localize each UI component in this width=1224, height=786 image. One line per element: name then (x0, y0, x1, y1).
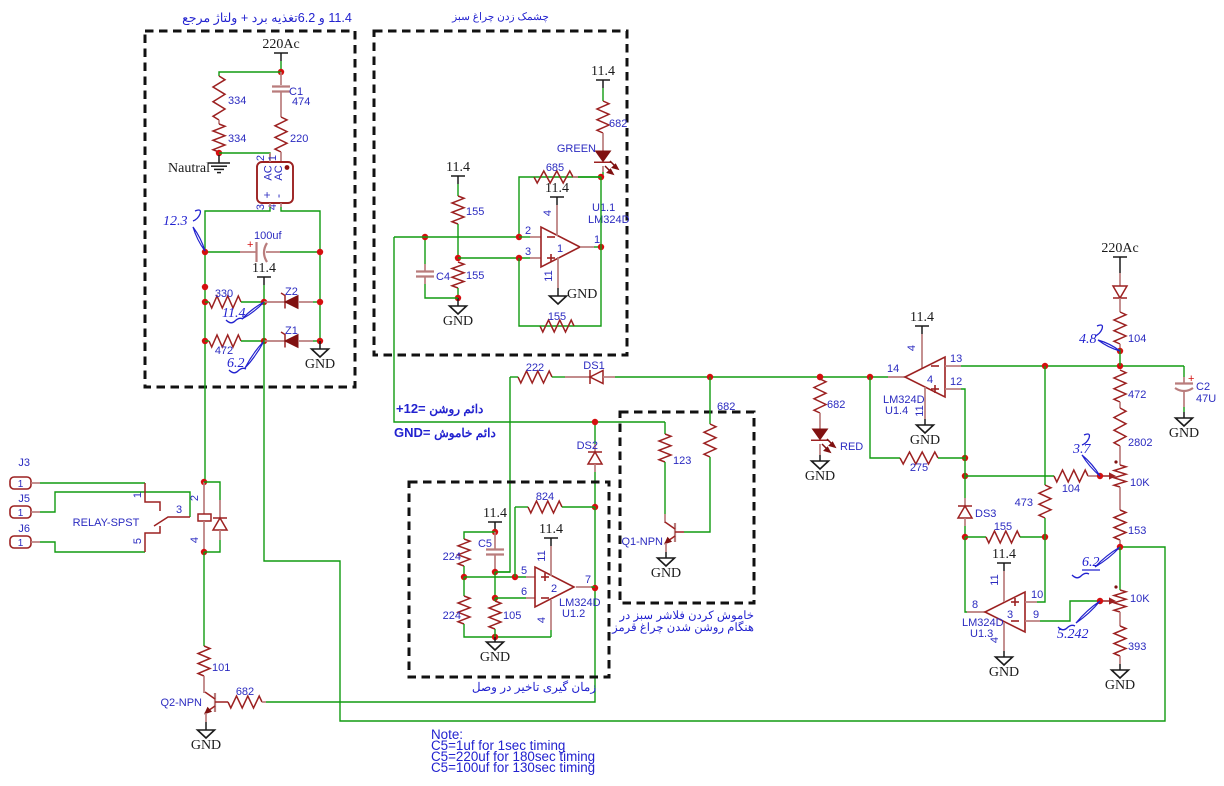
svg-text:1: 1 (557, 243, 563, 255)
J6 pin lead (31, 541, 40, 543)
resistor 472 (209, 335, 241, 347)
wire divider to gnd (457, 288, 459, 298)
wire 11.4 stub to 682 (602, 88, 604, 101)
junction 275 right (962, 455, 968, 461)
svg-text:6.2: 6.2 (1082, 555, 1100, 570)
pin 5 lead (526, 576, 535, 578)
pin 10 lead (1025, 601, 1037, 603)
wire flyback bottom (204, 540, 220, 552)
earth ground Nautral (208, 163, 230, 173)
J5 pin lead (31, 511, 40, 513)
svg-text:155: 155 (994, 521, 1012, 533)
wire 685 right (534, 176, 601, 178)
svg-text:U1.2: U1.2 (562, 608, 585, 620)
wire DS1 row to U1.4 pin14 (615, 376, 888, 378)
svg-text:155: 155 (466, 270, 484, 282)
net label +12 = always on (396, 401, 483, 416)
potentiometer 10K (upper) (1114, 465, 1126, 487)
svg-text:Z1: Z1 (285, 325, 298, 337)
svg-text:DS2: DS2 (577, 440, 598, 452)
Q2 emitter lead (205, 713, 207, 722)
wire (263, 302, 265, 341)
svg-text:105: 105 (503, 610, 521, 622)
svg-text:GND: GND (305, 357, 335, 372)
pin 7 output lead (576, 586, 591, 588)
svg-text:2: 2 (255, 155, 267, 161)
resistor 393 (1114, 626, 1126, 656)
wire 824 left branch (514, 507, 516, 577)
svg-text:3: 3 (525, 246, 531, 258)
wire bridge - rail (GND) (281, 207, 320, 341)
svg-text:C5: C5 (478, 538, 492, 550)
wire pin9 to pot wiper (1040, 601, 1097, 621)
junction coil top (201, 479, 207, 485)
dashed box: green LED flasher section (374, 31, 627, 355)
svg-text:224: 224 (443, 610, 461, 622)
svg-text:J5: J5 (18, 493, 30, 505)
wire DS2 to 824 node (594, 472, 596, 507)
svg-text:11.4: 11.4 (539, 522, 563, 537)
power terminal 11.4 (divider) (446, 160, 470, 184)
junction pot2 wiper (1097, 598, 1103, 604)
svg-text:11.4: 11.4 (252, 261, 276, 276)
pin 4 lead (U1.4) (921, 334, 923, 369)
zener Z2 (281, 293, 298, 309)
svg-text:10: 10 (1031, 589, 1043, 601)
resistor 123 (659, 434, 671, 462)
junction 472 left (202, 338, 208, 344)
svg-text:330: 330 (215, 288, 233, 300)
ground (U1.3 pin4) (989, 657, 1019, 680)
resistor 155 (divider lower) (452, 262, 464, 288)
Q1 collector lead (664, 514, 666, 523)
svg-text:GND: GND (651, 566, 681, 581)
svg-text:Z2: Z2 (285, 286, 298, 298)
svg-text:Q1-NPN: Q1-NPN (621, 536, 663, 548)
svg-text:11.4: 11.4 (992, 547, 1016, 562)
junction gnd rail / Z2 (317, 299, 323, 305)
wire 824 left stub (515, 506, 528, 508)
svg-text:682: 682 (827, 399, 845, 411)
wire 682 Q1 top (709, 377, 711, 424)
junction pin2 (516, 234, 522, 240)
resistor 155 (hysteresis) (986, 531, 1020, 543)
wire C2 top (1183, 366, 1185, 377)
ground (timer) (480, 642, 510, 665)
svg-text:4: 4 (927, 374, 933, 386)
pin 4 lead (U1.1) (556, 205, 558, 236)
net label GND = always off (394, 425, 496, 440)
ground (U1.1 pin11) (550, 287, 598, 304)
svg-text:100uf: 100uf (254, 230, 282, 242)
resistor 220 (275, 117, 287, 152)
svg-text:2: 2 (189, 495, 201, 501)
svg-text:472: 472 (1128, 389, 1146, 401)
wire C4 bottom (425, 284, 458, 298)
svg-text:7: 7 (585, 574, 591, 586)
wire 682 to Q1 base (684, 457, 710, 532)
resistor 275 (900, 452, 938, 464)
svg-text:GND: GND (805, 469, 835, 484)
svg-text:4: 4 (536, 617, 548, 623)
wire Z2 to gnd rail (313, 301, 320, 303)
svg-text:11.4: 11.4 (446, 160, 470, 175)
junction 12.3 rail (202, 284, 208, 290)
wire 222 left stub (510, 376, 518, 378)
wire pin12 down (961, 389, 965, 444)
pin 4 lead (U1.2) (550, 600, 552, 630)
svg-text:1: 1 (267, 155, 279, 161)
wire DS3 to 155 row (964, 526, 966, 537)
wire feedback rail right (540, 177, 601, 326)
bridge rectifier (257, 162, 293, 203)
ground (Q2) (191, 730, 221, 753)
junction 685/LED (598, 174, 604, 180)
power terminal 11.4 (U1.4 pin4) (910, 310, 934, 334)
wire 104 to main node (1119, 349, 1121, 366)
svg-text:474: 474 (292, 96, 310, 108)
junction gnd row / 105 (492, 634, 498, 640)
pin 4 lead (U1.3) (1003, 622, 1005, 651)
svg-text:824: 824 (536, 491, 554, 503)
svg-text:AC: AC (273, 165, 285, 180)
junction gnd rail / 100uf (317, 249, 323, 255)
svg-text:RELAY-SPST: RELAY-SPST (73, 517, 140, 529)
wire 275 right (938, 457, 965, 459)
relay pin1 fixed contact (145, 483, 160, 511)
svg-text:8: 8 (972, 599, 978, 611)
junction coil bottom (201, 549, 207, 555)
wire 6.2 node to pot2 (1119, 547, 1121, 590)
pin 1 output lead (580, 246, 594, 248)
ground (Q1) (651, 558, 681, 581)
wire DS2 top (594, 422, 596, 444)
wire (519, 236, 530, 238)
wire to 224 upper (464, 532, 495, 539)
wire U1.1 pin2 net to DS2/123 row (394, 237, 665, 422)
wire timer gnd row (464, 624, 551, 637)
junction C5 bottom (492, 569, 498, 575)
resistor 101 (198, 646, 210, 676)
svg-text:123: 123 (673, 455, 691, 467)
junction DS1 row / 682 Q1 (707, 374, 713, 380)
op-amp U1.2 LM324D (535, 567, 574, 607)
svg-text:J3: J3 (18, 457, 30, 469)
wire pin6 row (495, 597, 526, 599)
resistor 155 (feedback) (540, 320, 574, 332)
wire to bridge pin 2 (219, 153, 270, 158)
svg-text:GND: GND (910, 433, 940, 448)
junction 6.2 ref node (261, 338, 267, 344)
wire divider mid (457, 224, 459, 258)
svg-text:14: 14 (887, 363, 899, 375)
junction 330 left (202, 299, 208, 305)
svg-text:220Ac: 220Ac (262, 37, 299, 52)
svg-text:4: 4 (906, 345, 918, 351)
junction U1.2 output (592, 585, 598, 591)
note about C5 timing values (431, 729, 595, 773)
svg-text:220: 220 (290, 133, 308, 145)
pin 3 lead (530, 257, 541, 259)
relay pin5 fixed contact (145, 526, 160, 552)
ground (U1.4 pin11) (910, 425, 940, 448)
diode DS3 (958, 506, 972, 518)
svg-text:155: 155 (548, 311, 566, 323)
junction 12.3 rail / 100uf (202, 249, 208, 255)
power terminal 11.4 (U1.1 pin4) (545, 181, 569, 205)
svg-text:LM324D: LM324D (588, 214, 630, 226)
svg-text:-: - (271, 194, 285, 198)
svg-text:4: 4 (542, 210, 554, 216)
svg-text:5: 5 (132, 538, 144, 544)
wire (203, 552, 205, 646)
pin 1 marker dot (bridge) (285, 165, 290, 170)
junction U1.1 output (598, 244, 604, 250)
svg-text:10K: 10K (1130, 477, 1150, 489)
pin 13 lead (945, 365, 961, 367)
svg-text:220Ac: 220Ac (1101, 241, 1138, 256)
svg-text:1: 1 (18, 508, 24, 519)
op-amp U1.4 LM324D (905, 357, 945, 397)
dashed box: Q1 section (620, 412, 754, 603)
wire output to rail (594, 246, 601, 248)
resistor 824 (528, 501, 562, 513)
pin 6 lead (526, 597, 535, 599)
pin 2 lead (530, 236, 541, 238)
svg-text:3: 3 (176, 504, 182, 516)
power terminal 11.4 (682 green LED) (591, 64, 615, 88)
svg-text:334: 334 (228, 133, 246, 145)
svg-text:11.4: 11.4 (483, 506, 507, 521)
Q2 collector lead (203, 676, 205, 693)
svg-text:13: 13 (950, 353, 962, 365)
junction divider mid (455, 255, 461, 261)
junction main node 4.8 row (1117, 363, 1123, 369)
resistor 473 (1039, 485, 1051, 518)
wire 222 to DS1 (552, 376, 565, 378)
svg-text:393: 393 (1128, 641, 1146, 653)
svg-text:RED: RED (840, 441, 863, 453)
wire Z1 to gnd rail (313, 340, 320, 342)
pin 9 lead (1025, 620, 1040, 622)
wire 472 to node (241, 340, 264, 342)
svg-text:+: + (247, 239, 253, 251)
wire flyback top (204, 482, 220, 500)
svg-text:12: 12 (950, 376, 962, 388)
svg-text:682: 682 (609, 118, 627, 130)
svg-text:U1.4: U1.4 (885, 405, 908, 417)
svg-text:10K: 10K (1130, 593, 1150, 605)
power terminal 11.4 (U1.2 pin11) (539, 522, 563, 546)
Persian title: green light blinking (box2) (374, 11, 627, 23)
junction 11.4 ref node (261, 299, 267, 305)
wire pin2 row (394, 236, 519, 238)
svg-text:4: 4 (189, 537, 201, 543)
Persian title: board supply + reference voltage (box1) (167, 10, 367, 25)
junction 682 red top (817, 374, 823, 380)
svg-text:DS3: DS3 (975, 508, 996, 520)
svg-text:104: 104 (1062, 483, 1080, 495)
svg-text:11: 11 (989, 574, 1001, 585)
resistor 153 (1114, 510, 1126, 540)
svg-text:GND: GND (443, 314, 473, 329)
junction DS3 / 155 / U1.3 out (962, 534, 968, 540)
wire 685 left to pin2 (519, 177, 534, 237)
junction DS1 row / 275 (867, 374, 873, 380)
svg-text:11.4: 11.4 (910, 310, 934, 325)
resistor 682 (red LED) (814, 379, 826, 413)
svg-text:685: 685 (546, 162, 564, 174)
resistor 224 (lower) (458, 596, 470, 624)
wire 6.2 net long route (264, 341, 1165, 721)
wire C2 bottom (1183, 407, 1185, 412)
svg-text:1: 1 (18, 538, 24, 549)
wire 100uf left (205, 251, 240, 253)
svg-text:2802: 2802 (1128, 437, 1152, 449)
svg-text:GND: GND (567, 287, 597, 302)
resistor 104 (wiper) (1054, 470, 1088, 482)
svg-text:GND: GND (1105, 678, 1135, 693)
wire 685 to LED node (578, 176, 601, 178)
relay blade to pin3 (154, 517, 190, 526)
wire J5 to relay pin3 (40, 492, 190, 517)
svg-text:1: 1 (18, 479, 24, 490)
transistor Q2-NPN (204, 692, 215, 715)
LED RED (811, 429, 835, 452)
capacitor C1 474 (280, 72, 282, 85)
svg-text:3: 3 (255, 204, 267, 210)
wire pin5 row (464, 576, 526, 578)
wire U1.3 output branch (965, 537, 967, 612)
svg-text:155: 155 (466, 206, 484, 218)
dashed box: delay timer section (409, 482, 609, 677)
resistor 334 (lower) (213, 124, 225, 152)
resistor 682 (green LED) (597, 101, 609, 133)
wire pin4 to gnd row (550, 630, 552, 637)
wire 330 to node (241, 301, 264, 303)
junction pot1 wiper (1097, 473, 1103, 479)
pin 11 lead (U1.2) (550, 546, 552, 576)
ground (C2) (1169, 418, 1199, 441)
resistor 224 (upper) (458, 539, 470, 566)
pin 11 lead (U1.3) (1003, 571, 1005, 602)
junction pin5 / 824 (512, 574, 518, 580)
wire timer output net to Q2 base (266, 507, 595, 702)
Q1 emitter lead (665, 543, 667, 552)
svg-text:224: 224 (443, 551, 461, 563)
resistor 104 (input) (1114, 312, 1126, 344)
pin 12 lead (945, 388, 961, 390)
resistor 330 (209, 296, 241, 308)
wire 105 top (494, 598, 496, 601)
pin 8 output lead (967, 611, 985, 613)
svg-text:DS1: DS1 (583, 360, 604, 372)
ground (box1) (305, 349, 335, 372)
wire output to rail (591, 586, 595, 588)
svg-text:3.7: 3.7 (1072, 442, 1092, 457)
power terminal 11.4 (C5 node) (483, 506, 507, 530)
svg-text:4: 4 (989, 637, 1001, 643)
svg-text:GREEN: GREEN (557, 143, 596, 155)
junction 220Ac node (278, 69, 284, 75)
svg-text:11: 11 (536, 550, 548, 561)
wire 220Ac stub (280, 61, 282, 72)
svg-text:5: 5 (521, 565, 527, 577)
junction 6.2 node right (1117, 544, 1123, 550)
svg-text:1: 1 (594, 234, 600, 246)
pin 11 lead (U1.1) (557, 257, 559, 288)
Q1 base lead (675, 531, 684, 533)
potentiometer 10K (lower) (1114, 590, 1126, 612)
wire feedback left to pin3 (519, 258, 540, 326)
svg-text:222: 222 (526, 362, 544, 374)
svg-text:101: 101 (212, 662, 230, 674)
transistor Q1-NPN (664, 522, 675, 545)
power terminal 220Ac (right) (1101, 241, 1138, 265)
wire 100uf right (280, 251, 320, 253)
junction pin6 row (492, 595, 498, 601)
svg-text:153: 153 (1128, 525, 1146, 537)
svg-text:GND: GND (1169, 426, 1199, 441)
wire 155 left (965, 536, 986, 538)
wire to R 334 upper (219, 72, 281, 76)
wire 330 left stub (205, 301, 209, 303)
svg-text:12.3: 12.3 (163, 214, 188, 229)
wire J6 to relay pin5 (40, 542, 145, 552)
wire 104 row (965, 475, 1054, 477)
junction 4.8 probe (1117, 348, 1123, 354)
wire pin3 row (458, 257, 530, 259)
svg-text:6: 6 (521, 586, 527, 598)
svg-text:334: 334 (228, 95, 246, 107)
wire C5 to 222 net (495, 571, 510, 573)
diode (220Ac input) (1113, 286, 1127, 298)
svg-text:11: 11 (543, 270, 555, 281)
wire to 123 (664, 422, 666, 434)
resistor 472 (right) (1114, 370, 1126, 402)
pin 14 output lead (U1.4) (888, 376, 905, 378)
power terminal 11.4 (U1.3 pin11) (992, 547, 1016, 571)
svg-text:C2: C2 (1196, 381, 1210, 393)
op-amp U1.1 LM324D (541, 227, 580, 267)
ground (red LED) (805, 461, 835, 484)
svg-text:275: 275 (910, 462, 928, 474)
wire 155 right (1020, 536, 1045, 538)
wire 224 to pin5 row (463, 566, 465, 577)
Persian caption: turn off green flasher when red light is on (box4) (600, 610, 754, 634)
resistor 682 (Q2 base) (228, 696, 262, 708)
wire 123 to Q1 collector (664, 462, 666, 514)
Persian caption: switch-on delay timing (box3) (434, 680, 634, 694)
zener Z1 (281, 332, 298, 348)
svg-text:2: 2 (525, 225, 531, 237)
power terminal 11.4 (zener node) (252, 261, 276, 285)
svg-text:GND: GND (191, 738, 221, 753)
svg-text:1: 1 (132, 492, 144, 498)
wire 11.4 to Z2 node (263, 285, 265, 302)
junction pin5 row left (461, 574, 467, 580)
svg-text:682: 682 (717, 401, 735, 413)
resistor 682 (Q1 base) (704, 424, 716, 457)
svg-text:473: 473 (1015, 497, 1033, 509)
junction C4 / pin2 row (422, 234, 428, 240)
junction 473 / pin10 (1042, 534, 1048, 540)
wire 105 bottom (494, 629, 496, 637)
wire 11.4 stub C5 (494, 530, 496, 532)
svg-text:11.4: 11.4 (545, 181, 569, 196)
junction DS2 / row (592, 419, 598, 425)
wire C4 top (424, 237, 426, 264)
